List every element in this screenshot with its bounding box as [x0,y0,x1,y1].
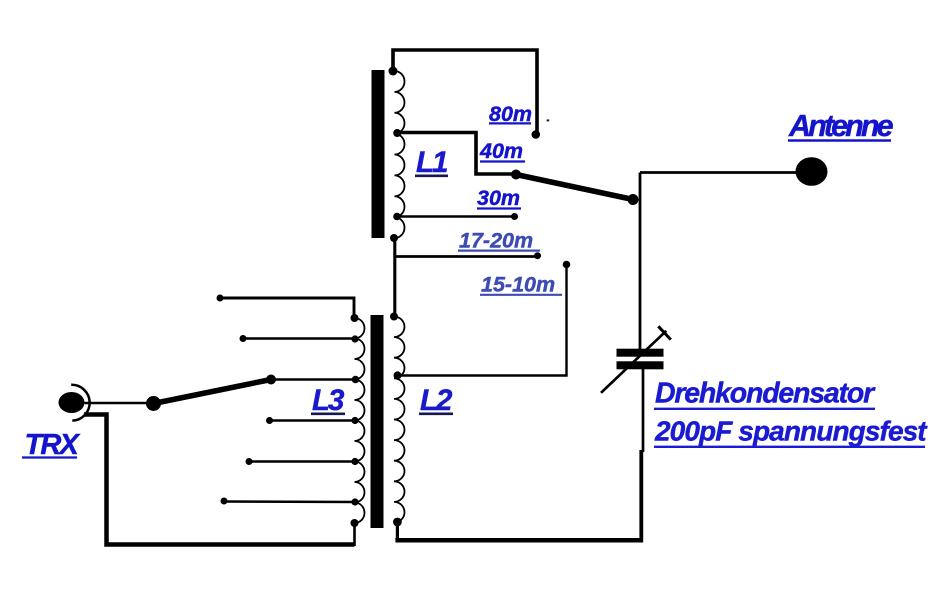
node L1 bottom [390,234,398,242]
wire L3 top tap [220,298,354,318]
inductor L1 winding [395,71,405,238]
node L3 tap6 contact [221,498,228,505]
node L3 tap3 [352,376,360,384]
svg-text:17-20m: 17-20m [459,228,533,252]
svg-text:40m: 40m [479,139,523,163]
node L1 tap 40m [393,129,401,137]
node L3 bottom [351,519,359,527]
svg-text:L2: L2 [420,384,453,417]
wire 17-20m tap [395,255,538,258]
node L3 tap4 [351,417,358,424]
wire L3 bottom to ground bus [353,523,356,546]
switch S1 contact node on antenna line [628,194,639,205]
wire bottom bus right [395,538,643,543]
switch S1 arm [516,175,633,200]
switch S2 contact node [266,375,276,385]
capacitor C1 top plate [617,349,664,357]
wire bottom bus left [84,415,355,545]
wire 40m tap to switch pivot [397,133,516,175]
wire L3 tap5 [249,460,356,462]
svg-text:Drehkondensator: Drehkondensator [655,378,876,410]
svg-text:L1: L1 [416,146,447,179]
switch S1 pivot node [511,170,521,180]
svg-text:200pF spannungsfest: 200pF spannungsfest [654,416,928,447]
wire capacitor to bus [642,368,645,452]
node L3 top contact [217,295,224,302]
wire L3 tap6 [224,500,356,503]
switch S2 arm [154,380,272,404]
terminal Antenne [796,157,828,186]
wire antenna line horizontal [640,171,807,174]
node L3 tap5 [351,458,358,465]
switch S2 pivot node [146,396,161,411]
stray mark [547,119,550,121]
node L2 tap [394,371,402,379]
transformer L2/L3 core [371,315,384,528]
wire L1 top to 80m contact [393,50,537,132]
node L3 tap2 contact [240,335,247,342]
node 15-10m contact [563,261,571,269]
node L3 top [351,314,359,322]
node 30m contact [511,213,518,220]
svg-text:80m: 80m [489,102,532,126]
node L3 tap4 contact [266,417,273,424]
capacitor C1 arrow head tick [658,326,671,339]
node 80m contact [532,130,541,139]
wire TRX to switch pivot [85,402,151,404]
svg-text:15-10m: 15-10m [481,273,555,297]
capacitor C1 bottom plate [617,361,664,369]
wire L1 bottom to L2 top [393,238,396,316]
wire L3 tap3 [271,378,357,380]
wire capacitor to bus lower [639,450,643,542]
wire 15-10m contact to L2 tap [399,265,567,376]
inductor L3 winding [355,318,365,523]
node L1 top [389,67,398,76]
node L3 tap2 [351,335,358,342]
svg-text:L3: L3 [312,384,345,417]
node L2 top [390,313,398,321]
inductor L1 core [372,70,385,238]
svg-text:TRX: TRX [25,429,81,461]
connector TRX jack [59,392,85,413]
wire L2 bottom drop [396,522,399,542]
wire 30m tap [397,215,515,217]
wire L3 tap2 [243,337,356,339]
inductor L2 winding [394,317,405,523]
capacitor C1 variable arrow [601,331,666,393]
wire L3 tap4 [270,419,357,421]
svg-text:Antenne: Antenne [788,109,894,143]
node L1 tap 30m [393,213,401,221]
node L3 tap5 contact [246,458,253,465]
wire antenna line vertical [639,173,642,350]
connector TRX shell arc [71,385,89,421]
node L3 tap6 [351,498,358,505]
node 17-20m contact [534,252,541,259]
node L2 bottom [393,518,402,527]
svg-text:30m: 30m [477,186,520,210]
